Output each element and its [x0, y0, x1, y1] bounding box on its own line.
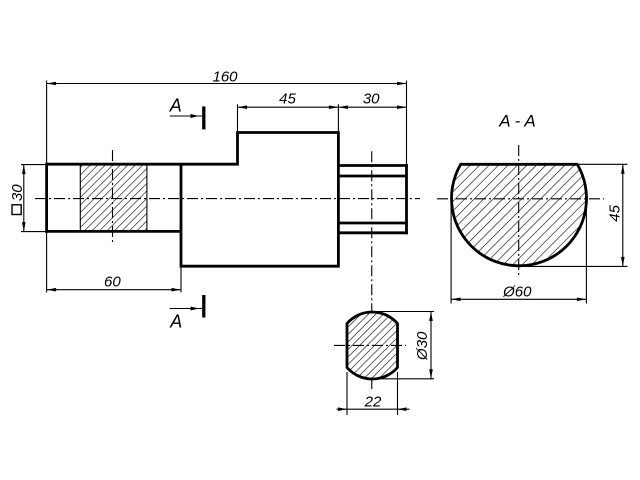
thread flat line lower [338, 222, 406, 225]
square-end bottom edge [45, 230, 181, 233]
dim d30 extension top [374, 311, 434, 313]
section A-A vertical centerline [518, 145, 520, 276]
dim 160/30 extension right [406, 81, 408, 166]
svg-text:45: 45 [606, 204, 623, 221]
dim 22 extension right [397, 372, 399, 415]
threaded end top line [338, 164, 408, 167]
dim 160 arrow right [397, 82, 407, 86]
thread flat line upper [338, 175, 406, 178]
main axis centerline [35, 198, 420, 200]
threaded end bottom line [338, 231, 408, 234]
dim 45 extension bottom [520, 265, 628, 267]
dim 45 arrow left [238, 105, 248, 109]
dim d30 extension bottom [374, 378, 434, 380]
dim d30 line [430, 312, 432, 379]
cutting plane A bottom arrow [170, 308, 202, 310]
dim sq30 text [9, 184, 26, 201]
dim sq30 arrow bottom [22, 222, 26, 232]
svg-text:160: 160 [212, 69, 238, 86]
section A-A body [451, 164, 586, 266]
dim d60 arrow right [577, 298, 587, 302]
dim d30 text rotated [414, 331, 431, 361]
dim 45-30 line [238, 106, 407, 108]
dim d60 extension left [450, 202, 452, 304]
break line left [79, 164, 81, 231]
dim 45 line right [622, 164, 624, 266]
dim 45 text rotated [606, 204, 623, 221]
dim 45 extension left [237, 104, 239, 132]
dim d60 line [451, 298, 586, 300]
dim 45 extension top [579, 163, 628, 165]
square symbol [12, 205, 21, 215]
svg-text:60: 60 [104, 274, 121, 291]
dim d30 arrow bottom [429, 369, 433, 379]
dim 22 arrow left outside [338, 407, 347, 411]
dim 60 arrow right [172, 288, 182, 292]
dim 30 arrow left [338, 105, 348, 109]
svg-text:30: 30 [363, 90, 380, 107]
dim 160 arrow left [47, 82, 57, 86]
dim d60 arrow left [451, 298, 461, 302]
thread section centerline [371, 151, 373, 389]
cutting plane A top bar [202, 106, 205, 129]
dim 60 arrow left [47, 288, 57, 292]
svg-text:A: A [169, 312, 182, 332]
dim 60 extension left [46, 231, 48, 292]
svg-text:A: A [169, 95, 182, 115]
shaft outline [47, 133, 339, 267]
dim 160 extension left [46, 81, 48, 165]
cutting plane A bottom bar [202, 295, 205, 318]
svg-text:A - A: A - A [498, 111, 536, 130]
dim 45 arrow right [329, 105, 339, 109]
dim 160 line [47, 83, 407, 85]
dim 45 arrow top [621, 164, 625, 174]
dim 22 extension left [346, 372, 348, 415]
svg-text:30: 30 [9, 184, 26, 201]
dim 22 arrow right outside [398, 407, 407, 411]
dim 45/30 extension middle [337, 104, 339, 132]
dim 30 arrow right [397, 105, 407, 109]
dim sq30 extension top [21, 164, 48, 166]
section A-A horizontal centerline [437, 198, 604, 200]
threaded end right edge [405, 164, 408, 234]
section horizontal centerline [334, 344, 406, 346]
dim d60 extension right [585, 202, 587, 304]
svg-text:22: 22 [364, 393, 382, 410]
dim d30 arrow top [429, 312, 433, 322]
cutting plane A top arrow [170, 115, 202, 117]
dim 45 arrow bottom [621, 257, 625, 267]
svg-text:45: 45 [279, 90, 296, 107]
svg-text:Ø30: Ø30 [414, 331, 431, 361]
dim sq30 arrow top [22, 165, 26, 175]
square section centerline [112, 150, 114, 244]
dim sq30 extension bottom [21, 231, 48, 233]
dim 60 line [47, 289, 181, 291]
broken-out section hatch [80, 164, 147, 231]
dim 22 line [337, 408, 410, 410]
svg-text:Ø60: Ø60 [502, 284, 532, 301]
dim sq30 line [23, 165, 25, 232]
section body [347, 312, 398, 379]
dim 60 extension right [180, 266, 182, 292]
break line right [146, 164, 148, 231]
